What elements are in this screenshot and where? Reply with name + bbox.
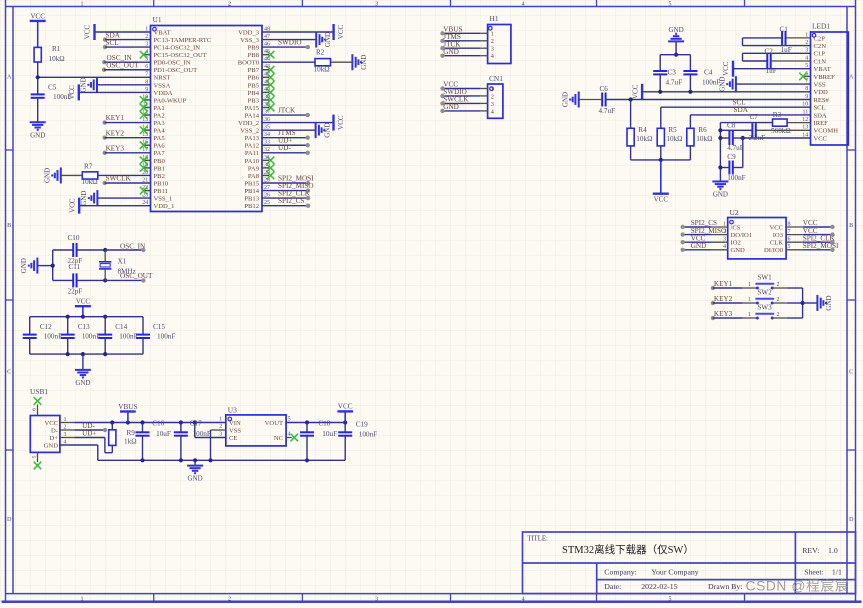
svg-text:22pF: 22pF bbox=[68, 288, 83, 296]
net label SCL bbox=[103, 45, 107, 49]
svg-text:GND: GND bbox=[360, 55, 368, 70]
svg-text:C18: C18 bbox=[318, 420, 330, 428]
U2 pin 4 (GND) bbox=[711, 249, 728, 251]
no-connect pins 43-38 bbox=[262, 69, 269, 71]
svg-text:GND: GND bbox=[825, 295, 833, 310]
capacitor C18 bbox=[306, 423, 308, 433]
no-connect pin14 bbox=[144, 129, 151, 131]
svg-text:GND: GND bbox=[188, 475, 203, 483]
power VCC (U1 pin36) bbox=[262, 122, 334, 124]
svg-text:VCC: VCC bbox=[337, 24, 345, 39]
svg-text:4.7uF: 4.7uF bbox=[727, 144, 744, 152]
svg-text:D+: D+ bbox=[50, 435, 59, 442]
power VCC (U1 pin1) bbox=[93, 24, 95, 40]
wire USB GND bbox=[60, 444, 98, 446]
svg-text:PA10: PA10 bbox=[245, 158, 260, 165]
svg-text:Date:: Date: bbox=[604, 582, 621, 591]
svg-text:KEY1: KEY1 bbox=[714, 280, 733, 288]
capacitor C13 bbox=[67, 317, 69, 335]
svg-text:100nF: 100nF bbox=[53, 93, 71, 101]
svg-text:VCC: VCC bbox=[30, 12, 45, 20]
svg-text:VCC: VCC bbox=[631, 84, 639, 99]
svg-text:VBAT: VBAT bbox=[154, 29, 171, 36]
svg-text:VDDA: VDDA bbox=[154, 90, 173, 97]
svg-text:PC13-TAMPER-RTC: PC13-TAMPER-RTC bbox=[154, 37, 212, 44]
svg-text:VCC: VCC bbox=[76, 298, 91, 306]
svg-text:PA8: PA8 bbox=[248, 173, 260, 180]
svg-text:4.7uF: 4.7uF bbox=[666, 78, 683, 86]
svg-text:1/1: 1/1 bbox=[832, 568, 842, 577]
svg-text:KEY2: KEY2 bbox=[106, 129, 125, 137]
flash U2 bbox=[728, 218, 786, 259]
svg-text:R7: R7 bbox=[84, 162, 93, 170]
capacitor C12 bbox=[29, 317, 31, 335]
svg-text:SCL: SCL bbox=[814, 105, 826, 112]
svg-text:1: 1 bbox=[748, 282, 751, 288]
svg-text:Company:: Company: bbox=[604, 568, 637, 577]
svg-text:C13: C13 bbox=[78, 323, 90, 331]
svg-text:PB5: PB5 bbox=[248, 82, 260, 89]
wire crystal left bus bbox=[52, 250, 54, 280]
svg-text:2: 2 bbox=[777, 297, 780, 303]
svg-text:SW1: SW1 bbox=[757, 274, 772, 282]
power VCC (U1 pin9 VDDA) bbox=[78, 84, 80, 100]
net label SPI2_CLK bbox=[262, 197, 308, 199]
svg-text:PB6: PB6 bbox=[248, 75, 260, 82]
svg-text:UD-: UD- bbox=[278, 144, 291, 152]
svg-text:VCC: VCC bbox=[814, 135, 828, 142]
connector CN1 bbox=[488, 84, 503, 118]
ground (bottom rail) bbox=[194, 460, 196, 465]
svg-text:VBUS: VBUS bbox=[118, 403, 137, 411]
svg-text:C7: C7 bbox=[750, 113, 759, 121]
svg-text:1: 1 bbox=[491, 31, 494, 38]
svg-text:R5: R5 bbox=[668, 126, 677, 134]
wire decoupling top rail bbox=[30, 316, 143, 318]
capacitor C17 bbox=[180, 423, 182, 433]
svg-text:VSS: VSS bbox=[814, 82, 826, 89]
power VCC (decoupling) bbox=[82, 306, 84, 317]
no-connect pins 10-12 bbox=[144, 99, 151, 101]
wire switch common bus bbox=[802, 288, 804, 318]
ground (R7) bbox=[60, 167, 62, 183]
no-connect pins 18,19 bbox=[144, 159, 151, 161]
svg-text:C14: C14 bbox=[115, 323, 127, 331]
wire D+ to R9 bbox=[60, 437, 74, 439]
svg-text:A: A bbox=[849, 73, 854, 80]
regulator U3 bbox=[226, 415, 286, 446]
svg-text:KEY3: KEY3 bbox=[106, 144, 125, 152]
svg-text:5: 5 bbox=[788, 244, 791, 250]
svg-text:C8: C8 bbox=[727, 122, 736, 130]
resistor R5 bbox=[657, 128, 664, 146]
svg-text:Sheet:: Sheet: bbox=[804, 568, 824, 577]
svg-text:U2: U2 bbox=[730, 208, 739, 217]
svg-text:C17: C17 bbox=[190, 420, 202, 428]
ground (U1 pin47) bbox=[262, 39, 316, 41]
svg-text:U1: U1 bbox=[153, 15, 162, 24]
net label SDA bbox=[103, 37, 107, 41]
svg-text:PA11: PA11 bbox=[245, 150, 259, 157]
svg-text:D-: D- bbox=[51, 427, 58, 434]
resistor R1 bbox=[34, 47, 41, 62]
svg-text:C12: C12 bbox=[40, 323, 52, 331]
capacitor C7 (VCOMH) bbox=[756, 129, 811, 131]
capacitor C9 bbox=[742, 138, 744, 168]
svg-text:C11: C11 bbox=[69, 263, 81, 271]
svg-text:C: C bbox=[7, 368, 11, 375]
svg-text:PB1: PB1 bbox=[154, 165, 165, 172]
svg-text:C2N: C2N bbox=[814, 43, 827, 50]
svg-text:GND: GND bbox=[80, 191, 88, 206]
svg-text:SW3: SW3 bbox=[757, 304, 772, 312]
node OSC_IN bbox=[103, 248, 107, 252]
svg-text:GND: GND bbox=[731, 247, 746, 254]
svg-text:PA1: PA1 bbox=[154, 105, 165, 112]
resistor R2 (BOOT0) bbox=[262, 61, 315, 63]
svg-text:4.7uF: 4.7uF bbox=[599, 107, 616, 115]
svg-text:VCOMH: VCOMH bbox=[814, 128, 839, 135]
svg-text:VSS: VSS bbox=[229, 427, 241, 434]
svg-text:CSDN @程宸宸: CSDN @程宸宸 bbox=[746, 577, 850, 593]
ground (C5) bbox=[30, 121, 46, 123]
CN1 pin 2 wire (SWDIO) bbox=[480, 95, 487, 97]
capacitor C10 bbox=[53, 249, 73, 251]
capacitor C1 loop (pins 1-2) bbox=[786, 37, 811, 39]
svg-text:SDA: SDA bbox=[814, 112, 827, 119]
resistor R3 (IREF) bbox=[787, 122, 810, 124]
CN1 pin 3 wire (SWCLK) bbox=[480, 102, 487, 104]
svg-text:DI/IO0: DI/IO0 bbox=[764, 247, 784, 254]
net label UD- bbox=[60, 429, 74, 431]
net label SWDIO bbox=[262, 46, 308, 48]
svg-text:IREF: IREF bbox=[814, 120, 829, 127]
svg-text:CN1: CN1 bbox=[489, 74, 503, 83]
svg-text:D: D bbox=[7, 516, 12, 523]
svg-text:6: 6 bbox=[31, 408, 37, 411]
svg-text:R3: R3 bbox=[773, 111, 782, 119]
svg-text:KEY1: KEY1 bbox=[106, 114, 125, 122]
resistor R9 bbox=[111, 423, 113, 430]
capacitor C15 bbox=[142, 317, 144, 335]
svg-text:RES#: RES# bbox=[814, 97, 830, 104]
power VCC (pullups) bbox=[660, 160, 662, 194]
svg-text:C6: C6 bbox=[600, 85, 609, 93]
nodes on VDD rail bbox=[658, 90, 662, 94]
capacitor C19 bbox=[344, 423, 346, 433]
svg-text:VSS_2: VSS_2 bbox=[240, 128, 259, 135]
capacitor C3 bbox=[659, 55, 661, 71]
svg-text:100nF: 100nF bbox=[727, 174, 745, 182]
svg-text:Drawn By:: Drawn By: bbox=[708, 582, 742, 591]
capacitor C2 loop (pins 3-4) bbox=[743, 52, 811, 54]
svg-text:SCL: SCL bbox=[106, 39, 119, 47]
svg-text:2: 2 bbox=[491, 38, 494, 45]
H1 pin 1 wire (VBUS) bbox=[480, 32, 487, 34]
U2 pin 1 (SPI2_CS) bbox=[711, 226, 728, 228]
svg-text:VCC: VCC bbox=[44, 420, 58, 427]
node RES#/R4 junction bbox=[629, 97, 633, 101]
no-connect U3 NC bbox=[286, 437, 292, 439]
svg-text:D: D bbox=[849, 516, 854, 523]
svg-text:VBREF: VBREF bbox=[814, 74, 836, 81]
svg-text:SWCLK: SWCLK bbox=[106, 175, 132, 183]
gnd bus (OLED) bbox=[719, 123, 721, 182]
svg-text:C: C bbox=[849, 368, 853, 375]
net label JTMS bbox=[262, 137, 308, 139]
svg-text:C9: C9 bbox=[727, 153, 736, 161]
capacitor C14 bbox=[104, 317, 106, 335]
svg-text:LED1: LED1 bbox=[812, 22, 830, 31]
svg-text:10kΩ: 10kΩ bbox=[696, 135, 712, 143]
svg-text:/CS: /CS bbox=[731, 224, 741, 231]
svg-text:1: 1 bbox=[81, 596, 84, 602]
svg-text:10uF: 10uF bbox=[156, 430, 171, 438]
svg-text:VIN: VIN bbox=[229, 420, 241, 427]
net label OSC_IN bbox=[105, 249, 143, 251]
svg-text:2022-02-15: 2022-02-15 bbox=[641, 582, 677, 591]
capacitor C4 bbox=[689, 55, 691, 71]
svg-text:4: 4 bbox=[522, 1, 525, 7]
power VCC (U1 pin48) bbox=[262, 31, 334, 33]
svg-text:C3: C3 bbox=[668, 69, 677, 77]
svg-text:VDD_1: VDD_1 bbox=[154, 203, 175, 210]
svg-text:1.0: 1.0 bbox=[828, 546, 838, 555]
svg-text:VSS_1: VSS_1 bbox=[154, 196, 173, 203]
power flag VBUS bbox=[127, 412, 129, 423]
svg-text:OSC_OUT: OSC_OUT bbox=[106, 62, 139, 70]
wire VSS to gnd rail bbox=[211, 429, 226, 431]
svg-text:C19: C19 bbox=[356, 421, 368, 429]
svg-text:VCC: VCC bbox=[84, 24, 92, 39]
svg-text:3: 3 bbox=[375, 596, 378, 602]
svg-text:STM32离线下载器（仅SW）: STM32离线下载器（仅SW） bbox=[562, 543, 694, 556]
net label SPI2_CS bbox=[262, 205, 308, 207]
svg-text:2: 2 bbox=[228, 596, 231, 602]
svg-text:SPI2_MOSI: SPI2_MOSI bbox=[803, 242, 839, 250]
U2 pin 5 (SPI2_MOSI) bbox=[786, 249, 803, 251]
svg-text:1: 1 bbox=[81, 1, 84, 7]
svg-text:REV:: REV: bbox=[802, 546, 819, 555]
no-connect pins 31-29 bbox=[262, 159, 269, 161]
svg-text:10kΩ: 10kΩ bbox=[666, 135, 682, 143]
svg-text:VCC: VCC bbox=[722, 61, 730, 76]
wire pullup bottom rail bbox=[631, 159, 691, 161]
svg-text:C1N: C1N bbox=[814, 58, 827, 65]
connector H1 bbox=[488, 25, 511, 64]
ground (C6) bbox=[578, 92, 580, 108]
svg-text:R2: R2 bbox=[316, 48, 325, 56]
svg-text:4: 4 bbox=[723, 244, 726, 250]
svg-text:PB9: PB9 bbox=[248, 45, 260, 52]
resistor R6 bbox=[687, 128, 694, 146]
svg-text:3: 3 bbox=[219, 432, 222, 438]
U2 pin 6 (SPI2_CLK) bbox=[786, 241, 803, 243]
svg-text:R1: R1 bbox=[52, 45, 61, 53]
net label KEY2 bbox=[103, 136, 107, 140]
svg-text:1: 1 bbox=[491, 86, 494, 93]
H1 pin 2 wire (JTMS) bbox=[480, 40, 487, 42]
U2 pin 8 (VCC) bbox=[786, 226, 803, 228]
U2 pin 3 (VCC) bbox=[711, 241, 728, 243]
ground (U1 pin23 VSS_1) bbox=[96, 190, 98, 206]
svg-text:SPI2_CS: SPI2_CS bbox=[278, 197, 304, 205]
svg-text:PB8: PB8 bbox=[248, 52, 260, 59]
node OSC_OUT bbox=[103, 278, 107, 282]
svg-text:PA3: PA3 bbox=[154, 120, 166, 127]
svg-text:C10: C10 bbox=[68, 234, 80, 242]
power VCC (VDD rail) bbox=[641, 84, 643, 100]
svg-text:4: 4 bbox=[288, 432, 291, 438]
capacitor C8 (VCC) bbox=[743, 137, 811, 139]
net label KEY1 bbox=[103, 120, 107, 124]
svg-text:100nF: 100nF bbox=[119, 332, 137, 340]
svg-text:GND: GND bbox=[443, 48, 459, 56]
svg-text:VOUT: VOUT bbox=[265, 420, 283, 427]
svg-text:C15: C15 bbox=[153, 323, 165, 331]
svg-text:4: 4 bbox=[522, 596, 525, 602]
svg-text:KEY3: KEY3 bbox=[714, 310, 733, 318]
ground (U1 pin35) bbox=[262, 129, 316, 131]
ground (R2) bbox=[351, 54, 353, 70]
U2 pin 7 (VCC) bbox=[786, 234, 803, 236]
svg-text:DO/IO1: DO/IO1 bbox=[731, 232, 753, 239]
CN1 pin 1 wire (VCC) bbox=[480, 88, 487, 90]
svg-text:7: 7 bbox=[788, 229, 791, 235]
net label UD- bbox=[262, 152, 308, 154]
svg-text:PB14: PB14 bbox=[244, 188, 259, 195]
svg-text:PA7: PA7 bbox=[154, 150, 166, 157]
ground (OLED bus) bbox=[712, 181, 728, 183]
svg-text:10kΩ: 10kΩ bbox=[636, 135, 652, 143]
svg-text:GND: GND bbox=[80, 77, 88, 92]
no-connect pin16 bbox=[144, 144, 151, 146]
wire CE tie high bbox=[195, 437, 226, 439]
svg-text:SW2: SW2 bbox=[757, 289, 772, 297]
svg-text:PB0: PB0 bbox=[154, 158, 166, 165]
capacitor C6 bbox=[601, 93, 603, 107]
svg-text:PC15-OSC32_OUT: PC15-OSC32_OUT bbox=[154, 52, 207, 59]
svg-text:C1: C1 bbox=[780, 25, 789, 33]
svg-text:R9: R9 bbox=[127, 429, 136, 437]
svg-text:VCC: VCC bbox=[337, 115, 345, 130]
svg-text:CLK: CLK bbox=[770, 240, 783, 247]
svg-text:R6: R6 bbox=[698, 126, 707, 134]
svg-text:JTCK: JTCK bbox=[278, 107, 296, 115]
svg-text:100nF: 100nF bbox=[359, 431, 377, 439]
svg-text:PA9: PA9 bbox=[248, 165, 260, 172]
svg-text:PC14-OSC32_IN: PC14-OSC32_IN bbox=[154, 45, 201, 52]
svg-text:C5: C5 bbox=[48, 84, 57, 92]
svg-text:U3: U3 bbox=[228, 405, 237, 414]
svg-text:2: 2 bbox=[228, 1, 231, 7]
net label KEY3 bbox=[103, 151, 107, 155]
svg-text:5: 5 bbox=[288, 417, 291, 423]
svg-text:IO3: IO3 bbox=[773, 232, 784, 239]
U2 pin 2 (SPI2_MISO) bbox=[711, 234, 728, 236]
wire bottom gnd rail bbox=[98, 459, 345, 461]
svg-text:GND: GND bbox=[669, 26, 684, 34]
svg-text:C16: C16 bbox=[152, 420, 164, 428]
svg-text:VSSA: VSSA bbox=[154, 82, 171, 89]
svg-text:B: B bbox=[7, 222, 11, 229]
svg-text:A: A bbox=[7, 73, 12, 80]
svg-text:SDA: SDA bbox=[734, 106, 749, 114]
svg-text:2: 2 bbox=[777, 282, 780, 288]
svg-text:VCC: VCC bbox=[338, 403, 353, 411]
no-connect pin6 VBREF bbox=[804, 75, 811, 77]
svg-text:5: 5 bbox=[669, 1, 672, 7]
svg-text:C4: C4 bbox=[704, 69, 713, 77]
svg-text:8: 8 bbox=[788, 221, 791, 227]
svg-text:H1: H1 bbox=[490, 14, 499, 23]
svg-text:PB4: PB4 bbox=[248, 90, 260, 97]
svg-text:1: 1 bbox=[219, 417, 222, 423]
wire decoupling bottom rail bbox=[30, 353, 143, 355]
svg-text:PB12: PB12 bbox=[244, 203, 259, 210]
svg-text:5: 5 bbox=[669, 596, 672, 602]
svg-text:KEY2: KEY2 bbox=[714, 295, 733, 303]
svg-text:GND: GND bbox=[713, 191, 728, 199]
svg-text:100nF: 100nF bbox=[702, 78, 720, 86]
svg-text:VDD: VDD bbox=[814, 89, 829, 96]
wire RES# rail bbox=[631, 99, 811, 101]
capacitor C5 bbox=[37, 77, 39, 94]
net label OSC_IN bbox=[102, 60, 106, 64]
svg-text:GND: GND bbox=[323, 123, 331, 138]
H1 pin 4 wire (GND) bbox=[480, 55, 487, 57]
OLED connector LED1 bbox=[811, 32, 849, 145]
svg-text:GND: GND bbox=[443, 103, 459, 111]
net label OSC_OUT bbox=[102, 68, 106, 72]
svg-text:GND: GND bbox=[43, 168, 51, 183]
ground (switches) bbox=[816, 295, 818, 311]
svg-text:PA5: PA5 bbox=[154, 135, 166, 142]
power VCC (U1 pin24 VDD_1) bbox=[78, 198, 80, 214]
svg-text:PA2: PA2 bbox=[154, 112, 165, 119]
mcu U1 bbox=[151, 26, 263, 212]
switch SW2 (KEY2) bbox=[711, 301, 715, 305]
svg-text:PA4: PA4 bbox=[154, 128, 166, 135]
svg-text:BOOT0: BOOT0 bbox=[238, 60, 260, 67]
svg-text:PB7: PB7 bbox=[248, 67, 260, 74]
sheet frame bbox=[6, 6, 856, 8]
wire VDD rail bbox=[642, 91, 810, 93]
svg-text:100nF: 100nF bbox=[82, 332, 100, 340]
connector USB1 bbox=[30, 416, 60, 453]
svg-text:3: 3 bbox=[375, 1, 378, 7]
svg-text:2: 2 bbox=[777, 312, 780, 318]
svg-text:3: 3 bbox=[723, 237, 726, 243]
svg-text:VCC: VCC bbox=[769, 224, 783, 231]
capacitor C11 bbox=[53, 279, 73, 281]
svg-text:2: 2 bbox=[219, 424, 222, 430]
svg-text:SWDIO: SWDIO bbox=[278, 39, 302, 47]
svg-text:IO2: IO2 bbox=[731, 240, 741, 247]
ground (crystal) bbox=[36, 258, 38, 274]
crystal X1 bbox=[104, 250, 106, 262]
svg-text:2: 2 bbox=[723, 229, 726, 235]
CN1 pin 4 wire (GND) bbox=[480, 110, 487, 112]
ground (decoupling) bbox=[82, 354, 84, 370]
net label UD+ bbox=[262, 144, 308, 146]
svg-text:GND: GND bbox=[20, 258, 28, 273]
svg-text:C2P: C2P bbox=[814, 35, 826, 42]
svg-text:100nF: 100nF bbox=[44, 332, 62, 340]
ground above C3 C4 bbox=[668, 40, 684, 42]
svg-text:1: 1 bbox=[748, 297, 751, 303]
svg-text:PD0-OSC_IN: PD0-OSC_IN bbox=[154, 60, 191, 67]
